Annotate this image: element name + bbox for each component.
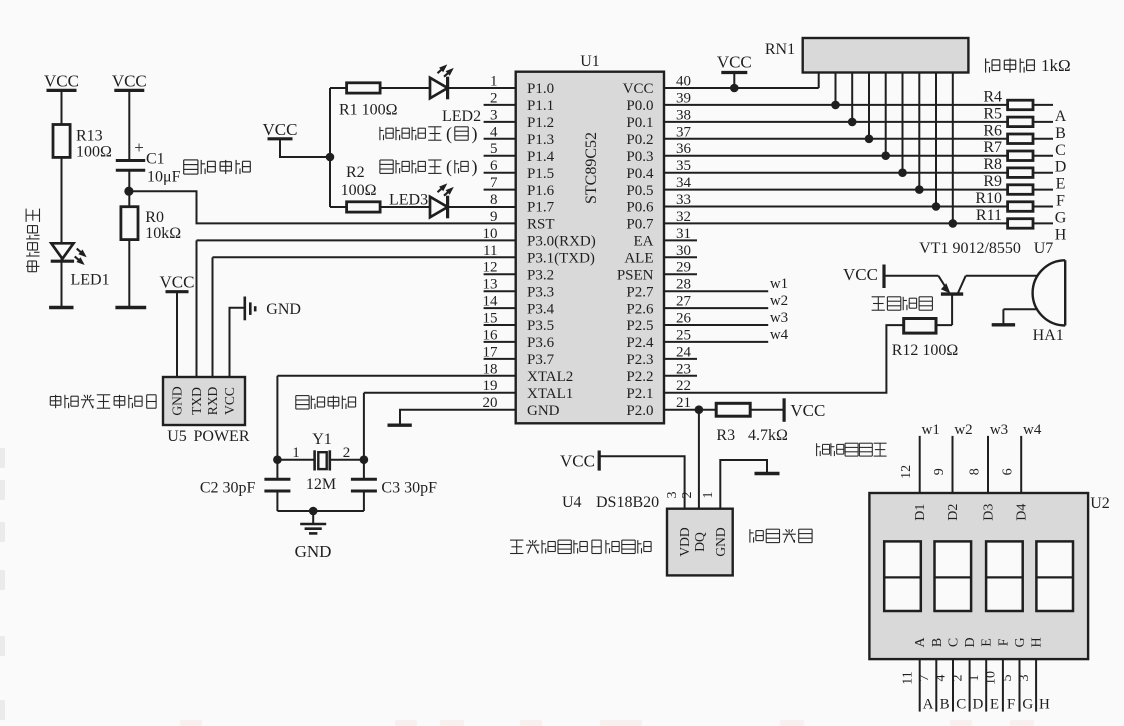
svg-text:VCC: VCC [790,401,825,420]
svg-text:1: 1 [292,445,300,461]
svg-text:8: 8 [968,468,983,475]
svg-text:P3.5: P3.5 [527,318,554,334]
svg-text:9: 9 [932,468,947,475]
svg-text:1: 1 [967,675,982,682]
svg-text:C2 30pF: C2 30pF [200,480,256,497]
svg-text:P0.0: P0.0 [626,98,653,114]
svg-text:Y1: Y1 [312,431,332,448]
svg-text:H: H [1039,697,1050,713]
svg-text:2: 2 [343,445,351,461]
svg-text:P2.5: P2.5 [626,318,653,334]
svg-text:P3.6: P3.6 [527,335,555,351]
svg-text:D2: D2 [946,504,961,521]
svg-text:2: 2 [680,492,695,499]
svg-text:VCC: VCC [160,273,195,292]
svg-text:HA1: HA1 [1033,327,1064,344]
svg-text:VCC: VCC [623,81,654,97]
svg-text:3: 3 [665,492,680,499]
svg-text:VCC: VCC [112,71,147,90]
svg-text:DQ: DQ [692,532,707,552]
svg-text:P1.4: P1.4 [527,149,555,165]
svg-text:VCC: VCC [717,53,752,72]
svg-text:A: A [1055,108,1067,125]
svg-text:R11: R11 [976,207,1002,224]
svg-text:P1.3: P1.3 [527,132,554,148]
svg-text:(: ( [446,157,452,178]
svg-text:P2.3: P2.3 [626,352,653,368]
svg-text:P0.6: P0.6 [626,200,654,216]
svg-text:12M: 12M [306,476,336,493]
svg-text:10kΩ: 10kΩ [145,225,181,242]
svg-text:P1.0: P1.0 [527,81,554,97]
svg-text:ALE: ALE [624,251,653,267]
svg-text:R2: R2 [346,164,365,181]
svg-text:R6: R6 [983,122,1002,139]
svg-text:GND: GND [170,386,185,415]
svg-text:P2.2: P2.2 [626,369,653,385]
svg-text:RXD: RXD [205,387,220,416]
svg-text:P1.7: P1.7 [527,200,555,216]
svg-text:E: E [1056,176,1066,193]
svg-text:POWER: POWER [194,428,250,445]
svg-text:P2.0: P2.0 [626,403,653,419]
svg-text:U5: U5 [167,428,187,445]
svg-text:): ) [472,157,478,178]
svg-text:G: G [1022,697,1033,713]
svg-text:R3: R3 [716,427,735,444]
svg-text:P0.2: P0.2 [626,132,653,148]
svg-text:P0.7: P0.7 [626,217,654,233]
svg-text:P3.7: P3.7 [527,352,555,368]
svg-text:w3: w3 [770,310,788,326]
svg-text:P3.0(RXD): P3.0(RXD) [527,234,596,250]
svg-text:P1.2: P1.2 [527,115,554,131]
svg-text:w4: w4 [770,327,789,343]
svg-text:7: 7 [917,675,932,682]
svg-text:(: ( [446,124,452,145]
svg-text:LED3: LED3 [389,191,428,208]
svg-text:100Ω: 100Ω [76,144,112,161]
svg-text:C3 30pF: C3 30pF [381,480,437,497]
svg-text:P2.7: P2.7 [626,284,654,300]
svg-text:P3.2: P3.2 [527,267,554,283]
svg-text:R5: R5 [983,105,1002,122]
svg-text:E: E [990,697,999,713]
svg-text:B: B [940,697,950,713]
svg-text:w3: w3 [990,422,1008,438]
svg-text:+: + [134,138,144,157]
svg-text:w2: w2 [954,422,972,438]
svg-text:3: 3 [1017,675,1032,682]
svg-text:B: B [1055,125,1066,142]
svg-text:DS18B20: DS18B20 [596,494,659,511]
svg-text:VDD: VDD [677,527,692,556]
svg-text:G: G [1055,210,1067,227]
svg-text:P3.3: P3.3 [527,284,554,300]
svg-text:VCC: VCC [44,71,79,90]
svg-text:D: D [1055,159,1067,176]
svg-text:P2.4: P2.4 [626,335,654,351]
svg-text:U7: U7 [1034,240,1054,257]
svg-text:w2: w2 [770,293,788,309]
svg-text:P1.6: P1.6 [527,183,555,199]
svg-text:2: 2 [950,675,965,682]
svg-text:VCC: VCC [222,387,237,415]
svg-text:w1: w1 [922,422,940,438]
svg-text:TXD: TXD [189,387,204,415]
svg-text:1: 1 [701,492,716,499]
svg-text:U1: U1 [580,53,600,70]
svg-text:E: E [980,638,995,647]
svg-text:A: A [923,697,934,713]
svg-text:C: C [947,638,962,647]
svg-text:LED2: LED2 [442,108,481,125]
svg-text:D: D [963,637,978,647]
svg-text:PSEN: PSEN [617,267,654,283]
svg-text:R12 100Ω: R12 100Ω [892,342,959,359]
svg-text:P2.1: P2.1 [626,386,653,402]
svg-text:P1.5: P1.5 [527,166,554,182]
svg-text:H: H [1030,637,1045,647]
svg-text:): ) [472,124,478,145]
svg-text:GND: GND [295,542,332,561]
svg-text:VCC: VCC [843,265,878,284]
svg-text:R4: R4 [983,88,1002,105]
svg-text:D1: D1 [913,504,928,521]
svg-text:XTAL1: XTAL1 [527,386,573,402]
svg-text:8: 8 [490,192,498,208]
svg-text:P3.4: P3.4 [527,301,555,317]
svg-text:C: C [1055,142,1066,159]
svg-text:G: G [1013,637,1028,647]
svg-text:P0.3: P0.3 [626,149,653,165]
svg-text:RST: RST [527,217,555,233]
svg-text:11: 11 [900,671,915,684]
svg-text:P3.1(TXD): P3.1(TXD) [527,251,595,267]
svg-text:D4: D4 [1015,504,1030,521]
svg-text:w4: w4 [1023,422,1042,438]
svg-text:10μF: 10μF [147,169,181,186]
svg-text:w1: w1 [770,276,788,292]
svg-text:C1: C1 [146,151,165,168]
svg-text:U4: U4 [562,494,582,511]
svg-text:12: 12 [899,465,914,479]
svg-text:P1.1: P1.1 [527,98,554,114]
svg-text:VT1 9012/8550: VT1 9012/8550 [919,240,1021,257]
svg-text:D: D [972,697,983,713]
svg-text:GND: GND [713,527,728,556]
svg-text:EA: EA [634,234,654,250]
svg-text:STC89C52: STC89C52 [583,132,600,204]
svg-text:R10: R10 [975,190,1002,207]
svg-text:P0.5: P0.5 [626,183,653,199]
svg-text:RN1: RN1 [765,41,795,58]
svg-text:R1 100Ω: R1 100Ω [339,102,398,119]
svg-text:F: F [1007,697,1015,713]
svg-text:GND: GND [266,301,301,318]
svg-text:R0: R0 [145,209,164,226]
svg-text:F: F [996,638,1011,646]
svg-text:F: F [1056,193,1065,210]
svg-text:D3: D3 [982,504,997,521]
svg-text:R9: R9 [983,173,1002,190]
svg-text:R7: R7 [983,139,1002,156]
svg-text:U2: U2 [1090,495,1110,512]
svg-text:VCC: VCC [263,120,298,139]
svg-text:C: C [956,697,966,713]
svg-text:P0.4: P0.4 [626,166,654,182]
svg-text:5: 5 [1000,675,1015,682]
svg-text:6: 6 [1001,468,1016,475]
svg-text:4: 4 [934,675,949,682]
svg-text:LED1: LED1 [71,272,110,289]
svg-text:B: B [930,638,945,647]
svg-text:GND: GND [527,403,560,419]
svg-text:R13: R13 [76,128,103,145]
svg-text:P2.6: P2.6 [626,301,654,317]
svg-text:VCC: VCC [560,452,595,471]
svg-text:4.7kΩ: 4.7kΩ [748,427,788,444]
svg-text:100Ω: 100Ω [341,182,377,199]
svg-text:R8: R8 [983,156,1002,173]
svg-text:10: 10 [984,671,999,685]
svg-text:XTAL2: XTAL2 [527,369,573,385]
svg-text:P0.1: P0.1 [626,115,653,131]
svg-text:A: A [913,636,928,647]
svg-text:H: H [1055,226,1067,243]
svg-text:1kΩ: 1kΩ [1041,56,1071,75]
